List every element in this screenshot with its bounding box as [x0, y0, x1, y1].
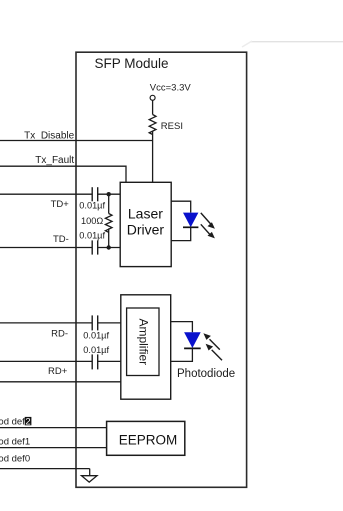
- laser diode (LED): [183, 213, 198, 228]
- power terminal Vcc=3.3V: [150, 82, 192, 100]
- wire: laser diode to Laser Driver (bottom): [171, 227, 191, 240]
- EEPROM block: [107, 421, 185, 455]
- wire Tx_Fault: [0, 166, 126, 182]
- svg-text:0.01µf: 0.01µf: [79, 201, 105, 211]
- wire Tx_Disable: [0, 140, 153, 142]
- label mod def2 (clipped at left, '2' highlighted): [0, 416, 31, 427]
- wire mod_def1: [0, 447, 107, 449]
- capacitor 0.01uf (TD+): [79, 187, 105, 210]
- resistor RESI: [149, 115, 183, 135]
- capacitor 0.01uf (RD-): [83, 315, 109, 340]
- svg-text:SFP Module: SFP Module: [95, 56, 169, 71]
- SFP Module enclosure box: [76, 52, 247, 487]
- svg-text:2: 2: [25, 416, 30, 427]
- wire: Vcc terminal to resistor: [152, 100, 154, 114]
- junction node (TD-): [107, 245, 111, 249]
- svg-text:TD-: TD-: [53, 234, 69, 245]
- wire: Amplifier to photodiode (top): [171, 322, 193, 333]
- svg-text:Photodiode: Photodiode: [177, 368, 235, 380]
- wire (faint cropped line, top right): [242, 41, 343, 47]
- Amplifier block: [121, 295, 171, 399]
- wire mod_def2: [0, 427, 107, 429]
- emission arrow 1: [201, 213, 215, 229]
- photodiode: [184, 332, 201, 348]
- svg-text:EEPROM: EEPROM: [119, 432, 178, 447]
- incoming light arrow 2: [206, 344, 222, 360]
- svg-text:RESI: RESI: [161, 121, 183, 132]
- resistor 100ohm: [81, 194, 112, 247]
- svg-text:Laser: Laser: [128, 205, 163, 221]
- wire mod_def0: [0, 468, 90, 470]
- svg-text:Vcc=3.3V: Vcc=3.3V: [150, 82, 192, 93]
- wire RD-: [0, 322, 121, 324]
- svg-text:Tx_Fault: Tx_Fault: [35, 155, 74, 166]
- capacitor 0.01uf (RD+): [83, 345, 109, 369]
- wire: Laser Driver to laser diode (top): [171, 201, 191, 212]
- svg-text:Tx_Disable: Tx_Disable: [24, 131, 74, 142]
- svg-text:mod def1: mod def1: [0, 437, 30, 448]
- wire TD+: [0, 193, 120, 195]
- svg-text:0.01µf: 0.01µf: [83, 330, 109, 340]
- wire RD+: [0, 360, 121, 362]
- svg-text:RD-: RD-: [51, 328, 68, 339]
- wire TD-: [0, 247, 120, 249]
- svg-text:0.01µf: 0.01µf: [83, 345, 109, 355]
- ground: [82, 469, 98, 483]
- svg-text:Driver: Driver: [127, 221, 165, 237]
- svg-text:mod def: mod def: [0, 416, 25, 427]
- svg-text:mod def0: mod def0: [0, 453, 30, 464]
- incoming light arrow 1: [203, 333, 219, 349]
- svg-text:Amplifier: Amplifier: [137, 318, 151, 365]
- wire (unlabeled, to Amplifier): [0, 381, 121, 383]
- svg-text:0.01µf: 0.01µf: [79, 230, 105, 240]
- emission arrow 2: [201, 224, 215, 238]
- svg-text:TD+: TD+: [51, 199, 70, 210]
- svg-text:RD+: RD+: [48, 366, 68, 377]
- svg-text:100Ω: 100Ω: [81, 216, 103, 226]
- wire: photodiode to Amplifier (bottom): [171, 348, 193, 361]
- Laser Driver block: [120, 182, 171, 266]
- capacitor 0.01uf (TD-): [79, 230, 105, 254]
- junction node (TD+): [107, 192, 111, 196]
- wire: resistor to Laser Driver top pin: [152, 131, 154, 182]
